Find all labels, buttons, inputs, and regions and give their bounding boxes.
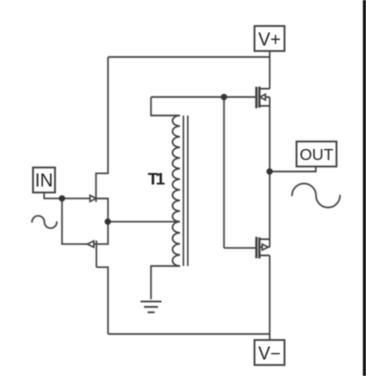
svg-text:V−: V− — [258, 343, 281, 363]
svg-text:OUT: OUT — [300, 147, 334, 164]
svg-text:1: 1 — [156, 169, 165, 188]
svg-text:IN: IN — [35, 170, 53, 190]
svg-text:V+: V+ — [258, 29, 281, 49]
